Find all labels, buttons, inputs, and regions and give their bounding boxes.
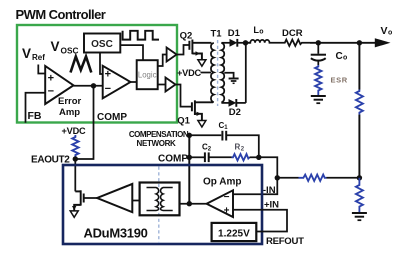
svg-text:COMPENSATION: COMPENSATION	[129, 130, 189, 139]
resistor R2	[232, 154, 250, 160]
svg-text:Op Amp: Op Amp	[203, 177, 242, 188]
svg-text:1.225V: 1.225V	[218, 229, 250, 240]
wire COMP down to EAOUT2	[75, 86, 93, 159]
wire upper buffer to Q2 gate	[177, 45, 190, 55]
wire C1 branch	[189, 134, 221, 136]
wire +IN	[233, 210, 287, 232]
label Co	[336, 51, 348, 62]
wire output rail to Vo	[310, 42, 376, 44]
node comp right	[256, 155, 261, 160]
wire C1 to right corner	[226, 135, 259, 157]
transistor output (inside ADuM)	[74, 190, 84, 210]
buffer lower driver	[166, 78, 176, 92]
op-amp comparator	[103, 66, 131, 99]
svg-text:ADuM3190: ADuM3190	[84, 226, 148, 241]
svg-text:NETWORK: NETWORK	[137, 139, 176, 148]
isolation dashed line ADuM	[158, 167, 160, 244]
svg-text:D1: D1	[228, 28, 241, 39]
node rail top	[187, 133, 192, 138]
wire lower buffer to Q1 gate	[176, 85, 192, 107]
ground secondary center tap	[229, 79, 239, 84]
label C1	[219, 121, 229, 131]
svg-text:+IN: +IN	[264, 200, 279, 211]
node rectifier output	[243, 40, 248, 45]
buffer ADuM driver (points left)	[97, 184, 132, 212]
svg-text:PWM Controller: PWM Controller	[16, 7, 106, 22]
wire error amp out to comparator	[74, 85, 103, 87]
node COMP junction	[91, 83, 96, 88]
capacitor C1	[222, 131, 226, 141]
capacitor Co	[311, 43, 326, 65]
buffer upper driver	[167, 48, 177, 62]
diode D2	[221, 99, 245, 107]
wire VRef to error amp +	[38, 65, 45, 74]
resistor pull-up EAOUT2	[72, 135, 78, 159]
op-amp ADuM (points left)	[207, 190, 233, 217]
PWM controller green box	[17, 25, 177, 123]
label R2	[235, 143, 245, 153]
transformer windings (inside box)	[147, 188, 173, 211]
ground Q1 (open triangle)	[198, 121, 206, 128]
label Vosc	[51, 39, 79, 56]
node divider tap	[357, 40, 362, 45]
transistor Q2	[189, 40, 211, 60]
svg-text:Amp: Amp	[59, 107, 80, 118]
resistor feedback (horizontal)	[299, 175, 327, 181]
svg-text:−: −	[48, 86, 54, 98]
ADuM3190 blue box	[63, 165, 262, 244]
wire feedback to -IN node	[277, 177, 298, 179]
inductor Lo	[246, 40, 283, 43]
svg-text:+: +	[105, 69, 111, 81]
svg-text:+VDC: +VDC	[62, 126, 87, 136]
transformer T1 primary winding	[211, 43, 214, 103]
diode D1	[221, 39, 250, 47]
wire FB to error amp -	[26, 93, 46, 123]
svg-text:COMP: COMP	[97, 112, 127, 123]
svg-text:REFOUT: REFOUT	[266, 236, 304, 247]
svg-text:-IN: -IN	[263, 185, 276, 196]
svg-text:+VDC: +VDC	[177, 68, 202, 78]
OSC box	[84, 34, 120, 53]
transformer isolation box	[140, 183, 180, 216]
svg-text:D2: D2	[229, 107, 241, 118]
wire logic to upper buffer	[158, 55, 167, 67]
svg-text:o: o	[343, 55, 347, 62]
ground divider	[352, 213, 367, 220]
wire +VDC center tap	[201, 72, 212, 74]
wire OSC to logic	[120, 45, 143, 60]
wire D2 cathode up to D1 node	[245, 43, 247, 103]
node EAOUT2	[73, 156, 78, 161]
label VRef	[22, 46, 45, 62]
node -IN	[275, 175, 280, 180]
node rail comp	[187, 155, 192, 160]
box 1.225V	[212, 223, 257, 241]
wire feedback left	[327, 177, 360, 179]
arrow Vo	[375, 38, 391, 47]
svg-text:+: +	[224, 206, 230, 217]
wire -IN down and into op amp	[233, 178, 277, 194]
svg-text:R: R	[235, 143, 241, 152]
wire transformer box to op amp	[180, 203, 207, 205]
ground ESR	[311, 96, 326, 103]
node Co tap	[316, 40, 321, 45]
svg-text:o: o	[388, 30, 392, 37]
svg-text:ESR: ESR	[331, 76, 348, 85]
logic box	[137, 60, 158, 89]
ground Q2 (open triangle)	[198, 60, 206, 66]
transformer T1 secondary winding	[221, 43, 224, 103]
svg-text:Ref: Ref	[32, 53, 45, 62]
svg-text:COMP: COMP	[158, 154, 188, 165]
resistor ESR	[315, 65, 321, 96]
triangle-wave icon	[71, 57, 92, 73]
svg-text:OSC: OSC	[91, 39, 113, 50]
wire gate to buffer	[84, 197, 97, 199]
svg-text:T1: T1	[211, 28, 223, 39]
op-amp Error Amp	[45, 66, 73, 104]
svg-text:−: −	[224, 192, 230, 203]
wire divider down	[358, 43, 360, 90]
transistor Q1	[192, 100, 213, 120]
svg-text:−: −	[105, 83, 111, 95]
svg-text:Q1: Q1	[177, 116, 190, 127]
ground ADuM output (open triangle)	[70, 211, 78, 217]
svg-text:V: V	[22, 46, 31, 61]
svg-text:FB: FB	[28, 110, 42, 122]
wire R2 to node	[250, 156, 259, 158]
wire C2 branch	[189, 156, 204, 158]
wire to divider mid	[358, 115, 360, 178]
label Vo	[381, 25, 393, 37]
resistor DCR	[283, 40, 310, 46]
svg-text:o: o	[259, 29, 263, 36]
svg-text:V: V	[381, 25, 388, 37]
resistor divider lower	[356, 178, 363, 213]
label Lo	[253, 25, 263, 36]
rail COMP vertical	[188, 135, 190, 203]
wire EAOUT2 into ADuM box	[74, 159, 76, 191]
svg-text:Logic: Logic	[138, 71, 157, 80]
wire OSC to comparator +	[100, 53, 103, 75]
label C2	[202, 143, 212, 153]
wire buffer to transformer box	[132, 200, 139, 202]
wire secondary center tap	[224, 73, 233, 78]
svg-text:Error: Error	[58, 96, 82, 107]
wire logic to lower buffer	[158, 84, 166, 86]
isolation dashed line T1	[217, 40, 219, 106]
svg-text:V: V	[51, 39, 60, 54]
wire C2 to R2	[209, 156, 232, 158]
capacitor C2	[205, 152, 209, 162]
node divider mid	[357, 175, 362, 180]
svg-text:DCR: DCR	[282, 28, 303, 39]
node op amp out	[187, 201, 192, 206]
svg-text:Q2: Q2	[180, 31, 193, 42]
resistor divider upper	[356, 90, 363, 115]
svg-text:C: C	[336, 51, 343, 62]
wire comp to -IN node	[259, 157, 278, 178]
svg-text:+: +	[48, 73, 54, 85]
square-wave icon	[123, 31, 159, 40]
wire comparator to logic	[131, 81, 137, 83]
